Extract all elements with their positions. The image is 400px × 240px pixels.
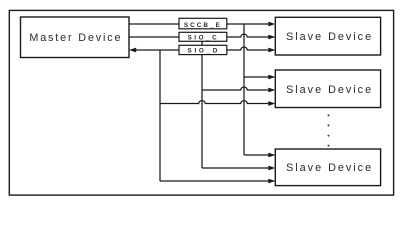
wire SCCB_E elbow to slave3 bbox=[244, 154, 269, 156]
svg-text:SCCB_E: SCCB_E bbox=[184, 22, 222, 29]
net label box SIO_C bbox=[179, 32, 227, 41]
arrow into slave3 pin SCCB_E bbox=[268, 153, 275, 158]
wire SIO_C elbow to slave3 bbox=[202, 167, 269, 169]
wire SIO_D master to slave1 with hop bbox=[136, 47, 269, 50]
svg-text:SIO_C: SIO_C bbox=[188, 34, 220, 41]
wire SCCB_E master to slave1 bbox=[129, 23, 269, 25]
arrow into slave1 pin SIO_D bbox=[268, 48, 275, 53]
net label box SIO_D bbox=[179, 45, 227, 54]
arrow into slave2 pin SIO_D bbox=[268, 101, 275, 106]
slave device box 1 bbox=[275, 17, 380, 55]
wire SIO_C master to slave1 with hop bbox=[129, 34, 269, 37]
arrow into master SIO_D bbox=[129, 48, 136, 53]
svg-text:SIO_D: SIO_D bbox=[188, 47, 220, 54]
arrow into slave1 pin SIO_C bbox=[268, 35, 275, 40]
svg-text:Slave Device: Slave Device bbox=[286, 31, 373, 43]
arrow into slave2 pin SIO_C bbox=[268, 88, 275, 93]
vertical wire SCCB_E bus x243.5 bbox=[243, 24, 245, 155]
arrow into slave2 pin SCCB_E bbox=[268, 75, 275, 80]
ellipsis dots between slave2 and slave3 bbox=[328, 114, 330, 116]
svg-text:Slave Device: Slave Device bbox=[286, 162, 373, 174]
slave device box 2 bbox=[275, 70, 380, 108]
arrow into slave1 pin SCCB_E bbox=[268, 22, 275, 27]
slave device box 3 bbox=[275, 149, 380, 186]
svg-text:Master Device: Master Device bbox=[29, 32, 122, 44]
svg-text:Slave Device: Slave Device bbox=[286, 84, 373, 96]
wire SIO_D to slave2 with two hops bbox=[160, 101, 269, 104]
wire SIO_C to slave2 with hop bbox=[202, 87, 269, 90]
vertical wire SIO_C bus x202 bbox=[201, 37, 203, 168]
master device box bbox=[21, 17, 130, 58]
arrow into slave3 pin SIO_D bbox=[268, 179, 275, 184]
wire SIO_D elbow to slave3 bbox=[160, 180, 269, 182]
wire SCCB_E to slave2 bbox=[244, 76, 269, 78]
net label box SCCB_E bbox=[179, 18, 227, 29]
arrow into slave3 pin SIO_C bbox=[268, 166, 275, 171]
vertical wire SIO_D bus x160 bbox=[159, 50, 161, 181]
outer frame bbox=[9, 10, 393, 195]
